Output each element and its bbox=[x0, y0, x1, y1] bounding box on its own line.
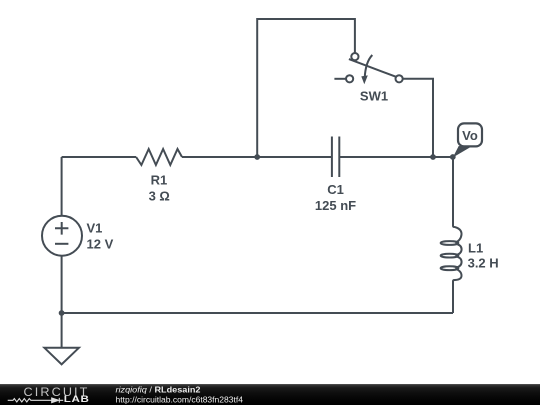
capacitor C1 right plate bbox=[338, 137, 340, 178]
switch SW1 blade bbox=[349, 59, 396, 77]
svg-text:R1: R1 bbox=[151, 172, 168, 187]
switch SW1 arrow arc bbox=[365, 55, 373, 78]
svg-text:12 V: 12 V bbox=[87, 236, 114, 251]
node junction dot at ground bbox=[59, 310, 65, 316]
wire: rail R1 to C1 bbox=[182, 156, 332, 158]
switch SW1 top terminal circle bbox=[351, 53, 358, 60]
switch SW1 right terminal circle bbox=[396, 75, 403, 82]
switch SW1 arrow head bbox=[361, 75, 368, 84]
voltage source V1 plus sign bbox=[55, 222, 68, 235]
wire: right rail lower (L1 to bottom corner) bbox=[452, 280, 454, 313]
svg-text:3.2 H: 3.2 H bbox=[468, 256, 499, 271]
switch SW1 left stub terminal circle bbox=[346, 75, 353, 82]
resistor R1 bbox=[136, 149, 182, 165]
svg-text:LAB: LAB bbox=[64, 394, 90, 405]
capacitor C1 left plate bbox=[331, 137, 333, 178]
inductor L1 coil entry hook bbox=[453, 227, 462, 243]
svg-text:rizqiofiq / RLdesain2: rizqiofiq / RLdesain2 bbox=[116, 384, 201, 394]
wire: bottom rail bbox=[62, 312, 453, 314]
svg-text:Vo: Vo bbox=[462, 128, 478, 143]
wire: top branch loop (node to switch top) bbox=[257, 19, 355, 157]
wire: switch right terminal to vertical drop bbox=[403, 79, 433, 157]
svg-text:C1: C1 bbox=[327, 182, 344, 197]
wire: left rail upper (rail to V1 top) bbox=[61, 157, 63, 216]
svg-text:http://circuitlab.com/c6t83fn2: http://circuitlab.com/c6t83fn283tf4 bbox=[116, 395, 244, 404]
inductor L1 coil loop 2 bbox=[441, 254, 459, 258]
node junction dot at switch drop bbox=[430, 154, 436, 160]
node junction dot at C1 branch bbox=[254, 154, 260, 160]
ground symbol triangle bbox=[44, 348, 79, 365]
switch SW1 left stub wire bbox=[334, 78, 345, 80]
inductor L1 coil exit hook bbox=[453, 269, 462, 280]
svg-text:3 Ω: 3 Ω bbox=[149, 189, 170, 204]
ground stem wire bbox=[61, 313, 63, 348]
Vo flag box bbox=[458, 123, 482, 146]
svg-text:125 nF: 125 nF bbox=[315, 198, 356, 213]
logo schematic squiggle wire bbox=[8, 399, 64, 402]
inductor L1 coil loop 3 bbox=[441, 266, 459, 270]
Vo flag pointer tail bbox=[453, 146, 472, 158]
inductor L1 coil bump 2 bbox=[455, 244, 461, 256]
wire: rail C1 to right corner bbox=[339, 156, 453, 158]
voltage source V1 circle bbox=[42, 216, 82, 256]
wire: right rail upper (Vo node down to L1) bbox=[452, 157, 454, 227]
wire: left rail lower (V1 bottom to bottom rail) bbox=[61, 256, 63, 313]
node junction dot at Vo bbox=[450, 154, 456, 160]
svg-text:SW1: SW1 bbox=[360, 88, 388, 103]
footer black bar bbox=[0, 384, 540, 405]
logo diode symbol bbox=[52, 398, 60, 403]
svg-text:V1: V1 bbox=[87, 221, 103, 236]
inductor L1 coil loop 1 bbox=[441, 241, 459, 245]
voltage source V1 minus sign bbox=[55, 243, 68, 245]
svg-text:L1: L1 bbox=[468, 241, 483, 256]
inductor L1 coil bump 3 bbox=[455, 256, 461, 268]
wire: main horizontal rail left segment (V1 top to R1) bbox=[62, 156, 137, 158]
